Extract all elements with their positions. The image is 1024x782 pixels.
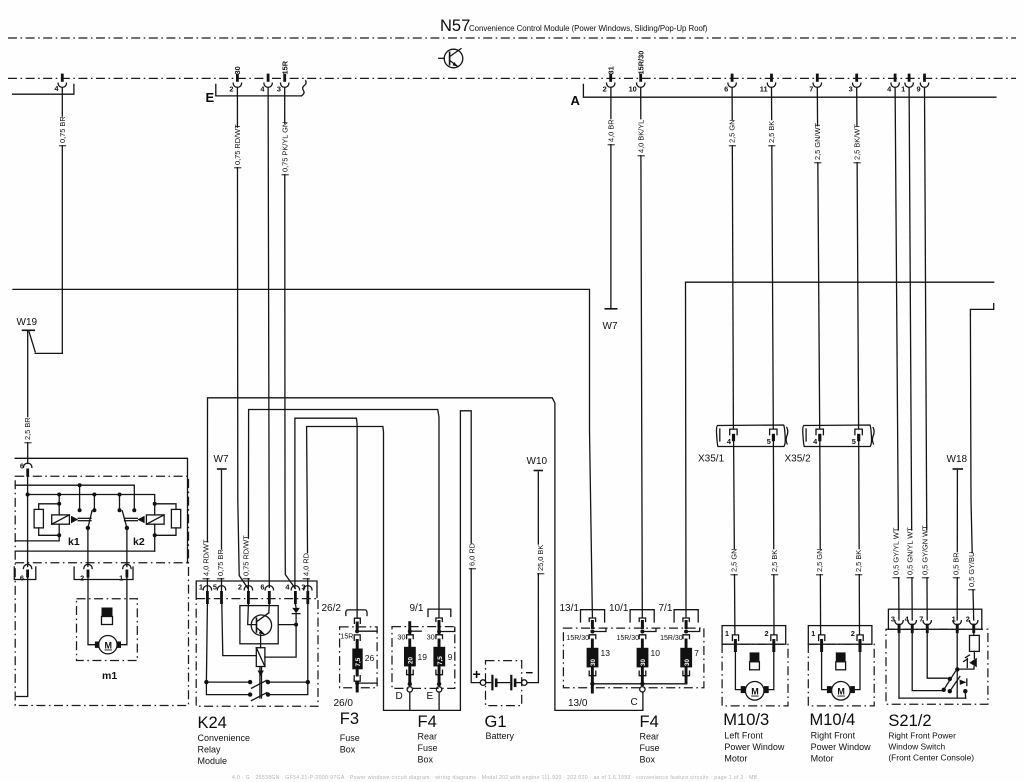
F3 labels xyxy=(334,698,360,755)
svg-text:0,5 GN/YL WT: 0,5 GN/YL WT xyxy=(905,527,914,575)
svg-text:0,75 RD/WT: 0,75 RD/WT xyxy=(242,535,251,576)
K24 pin 2 xyxy=(238,583,253,605)
svg-text:2: 2 xyxy=(851,629,855,638)
svg-text:13/1: 13/1 xyxy=(560,603,580,614)
svg-text:X35/2: X35/2 xyxy=(785,454,812,465)
motor M10/4 dash-dot box xyxy=(808,644,874,706)
svg-text:30: 30 xyxy=(640,658,647,666)
svg-text:30: 30 xyxy=(590,658,597,666)
door module chassis bus (top line and right drop) xyxy=(15,458,187,563)
svg-text:2: 2 xyxy=(765,629,769,638)
svg-text:F3: F3 xyxy=(340,710,359,728)
svg-text:Right Front: Right Front xyxy=(811,731,856,741)
svg-text:Window Switch: Window Switch xyxy=(888,742,945,752)
door module internal pins 2 and 1 (divider) xyxy=(74,564,133,582)
svg-text:2: 2 xyxy=(603,85,607,94)
svg-text:2,5 GN: 2,5 GN xyxy=(815,549,824,572)
svg-text:7,5: 7,5 xyxy=(355,657,362,666)
svg-text:9: 9 xyxy=(916,85,920,94)
wire divider pin 2 to m1 left brush xyxy=(88,578,95,645)
svg-text:15R/30: 15R/30 xyxy=(660,635,683,642)
svg-text:7,5: 7,5 xyxy=(437,656,444,665)
wire 0,5 GN/YL WT from A pin 1 to S21/2 pin 4 xyxy=(905,87,914,620)
svg-text:7: 7 xyxy=(694,648,699,658)
connector A pin 2 (terminal 31) xyxy=(603,66,616,93)
wire pin6 ground feed inside module xyxy=(27,477,29,567)
S21/2 rocker switch contacts xyxy=(899,633,968,698)
svg-text:15R: 15R xyxy=(341,634,354,641)
K24 pin 4 xyxy=(285,583,299,605)
svg-text:30: 30 xyxy=(684,658,691,666)
svg-text:5: 5 xyxy=(767,437,771,446)
svg-text:1: 1 xyxy=(725,629,729,638)
svg-text:A: A xyxy=(571,93,581,108)
S21/2 illumination LED xyxy=(957,655,976,669)
svg-text:2,5 GN/WT: 2,5 GN/WT xyxy=(813,123,822,160)
wire 4,0 BR from A pin 2 down to ground W7 xyxy=(606,87,615,307)
svg-text:X35/1: X35/1 xyxy=(698,454,725,465)
wire 2,5 GN/WT from A pin 7 to X35/2 pin 4 xyxy=(813,87,822,428)
svg-text:5: 5 xyxy=(852,437,856,446)
M10/3 labels xyxy=(723,711,785,764)
switch S21/2 connector box xyxy=(888,609,981,629)
K24 pin 3 xyxy=(301,583,312,605)
wire pin6 to module case (bottom left) xyxy=(17,578,28,697)
F4 left dash-dot box xyxy=(392,627,455,689)
svg-text:10: 10 xyxy=(629,85,637,94)
svg-text:(Front Center Console): (Front Center Console) xyxy=(888,753,974,763)
motor M10/4 armature xyxy=(822,650,860,700)
transistor symbol inside N57 xyxy=(439,49,463,68)
svg-text:1: 1 xyxy=(199,583,203,592)
N57 module boundary upper dash-dot line xyxy=(8,37,1016,39)
svg-text:30: 30 xyxy=(397,633,405,642)
svg-text:7/1: 7/1 xyxy=(659,603,673,614)
svg-text:0,5 GY/GN WT: 0,5 GY/GN WT xyxy=(921,525,930,575)
motor m1 xyxy=(95,636,121,654)
connector A pin 7 xyxy=(809,74,821,94)
S21/2 dash-dot box xyxy=(886,629,988,704)
svg-text:2,5 BR: 2,5 BR xyxy=(23,417,32,440)
svg-text:2,5 BK/WT: 2,5 BK/WT xyxy=(852,124,861,160)
svg-text:S21/2: S21/2 xyxy=(888,712,931,730)
wire 0,75 RD/WT from E pin 2 down to K24 pin 2 xyxy=(233,87,248,588)
svg-text:6: 6 xyxy=(20,462,24,471)
wire 15R branch: K24 pin 4 riser to fuse F3 (26/2) xyxy=(295,418,357,617)
svg-text:Rear: Rear xyxy=(418,732,438,742)
K24 relay coil xyxy=(222,604,298,667)
wire 0,75 BR from pin 4 down to W19 junction xyxy=(58,87,67,353)
svg-text:0,75 BR: 0,75 BR xyxy=(58,116,67,143)
svg-text:0,5 BR: 0,5 BR xyxy=(952,552,961,575)
fuse D (20A/19) xyxy=(397,621,427,710)
svg-text:15R/30: 15R/30 xyxy=(616,635,639,642)
S21/2 illumination resistor xyxy=(970,633,980,659)
wire 2,5 BK from A pin 11 to X35/1 pin 5 xyxy=(767,87,776,428)
svg-text:Convenience Control Module (Po: Convenience Control Module (Power Window… xyxy=(469,24,708,33)
svg-text:2,5 GN: 2,5 GN xyxy=(728,120,737,143)
svg-text:G1: G1 xyxy=(485,713,507,731)
K24 diode xyxy=(292,604,300,614)
motor M10/3 connector box xyxy=(722,626,786,652)
svg-text:Box: Box xyxy=(418,755,434,765)
M10/3 thermal block xyxy=(750,652,760,669)
svg-text:15R/30: 15R/30 xyxy=(637,51,646,75)
svg-text:Power Window: Power Window xyxy=(811,742,872,752)
wire 0,5 BR from W18 down to S21/2 pin 1 xyxy=(952,470,961,620)
svg-text:10: 10 xyxy=(651,648,661,658)
resistor (k1 parallel) xyxy=(15,504,61,541)
svg-text:0,75 RD/WT: 0,75 RD/WT xyxy=(233,124,242,165)
connector pin 4 (top left, N57) xyxy=(13,74,74,95)
fuse 13 bracket 13/1 xyxy=(560,603,605,629)
connector A pin 3 xyxy=(849,74,861,94)
wire 0,5 GY/BU drop to S21/2 pin 2 xyxy=(967,315,976,620)
svg-text:W19: W19 xyxy=(17,317,38,328)
wire 7/1 feed: fuse 7 up and across to S21/2 pin 2 drop xyxy=(686,282,994,617)
wire 0,5 GY/YL WT from A pin 4 to S21/2 pin 3 xyxy=(891,87,900,620)
svg-text:Power Window: Power Window xyxy=(724,742,785,752)
connector A pin 4 xyxy=(887,74,899,94)
relay k1 changeover contact xyxy=(78,485,97,566)
motor M10/3 dash-dot box xyxy=(722,644,788,706)
door module internal pin 6 (divider) xyxy=(14,564,36,582)
svg-text:30: 30 xyxy=(233,66,242,74)
K24 labels xyxy=(198,714,251,766)
F4 left labels xyxy=(396,691,438,765)
svg-text:M: M xyxy=(105,641,113,651)
svg-text:E: E xyxy=(206,90,215,105)
svg-text:5: 5 xyxy=(213,583,217,592)
K24 pin 1 xyxy=(199,583,212,605)
svg-text:4,0 RD/WT: 4,0 RD/WT xyxy=(201,539,210,576)
svg-text:Convenience: Convenience xyxy=(198,733,251,743)
relay section bus 2 (from pin 6) xyxy=(26,493,155,504)
svg-text:2,5 BK: 2,5 BK xyxy=(767,121,776,143)
svg-text:W7: W7 xyxy=(214,454,229,465)
svg-text:Fuse: Fuse xyxy=(640,743,660,753)
svg-text:26/0: 26/0 xyxy=(334,698,354,709)
svg-text:Rear: Rear xyxy=(640,732,660,742)
svg-text:M: M xyxy=(837,687,845,697)
svg-text:Right Front Power: Right Front Power xyxy=(888,731,956,741)
svg-text:6,0 RD: 6,0 RD xyxy=(468,543,477,566)
connector A pin 11 xyxy=(760,74,776,94)
svg-text:30: 30 xyxy=(427,633,435,642)
svg-text:4,0 BR: 4,0 BR xyxy=(606,119,615,142)
svg-text:1: 1 xyxy=(901,85,905,94)
wire 2,5 BK/WT from A pin 3 to X35/2 pin 5 xyxy=(852,87,861,428)
K24 driver transistor box xyxy=(240,604,278,644)
connector A pin 9 xyxy=(916,74,928,94)
wire 2,5 GN X35/2 pin4 to M10/4 pin 1 xyxy=(815,441,824,634)
svg-text:2,5 BK: 2,5 BK xyxy=(770,550,779,572)
M10/4 labels xyxy=(810,711,872,764)
relay k2 changeover contact xyxy=(118,495,137,567)
fuse 7 bracket 7/1 xyxy=(659,603,699,629)
svg-text:13: 13 xyxy=(601,648,611,658)
svg-text:0,75 BR: 0,75 BR xyxy=(216,549,225,576)
ground W7 (left) xyxy=(214,454,229,469)
svg-text:4,0 RD: 4,0 RD xyxy=(302,553,311,576)
svg-text:C: C xyxy=(631,697,638,708)
svg-text:20: 20 xyxy=(408,656,415,664)
svg-text:Motor: Motor xyxy=(724,754,747,764)
N57 module boundary lower dash-dot line xyxy=(8,77,1016,79)
S21/2 labels xyxy=(888,712,974,763)
svg-text:31: 31 xyxy=(607,66,616,74)
relay k1 coil xyxy=(52,495,91,549)
svg-text:0,5 GY/BU: 0,5 GY/BU xyxy=(967,552,976,587)
connector A pin 10 (terminal 15R/30) xyxy=(629,51,646,94)
svg-text:Box: Box xyxy=(340,745,356,755)
fuse 26 (7,5A) in F3 xyxy=(352,629,377,692)
svg-text:7: 7 xyxy=(809,85,813,94)
connector A bracket and label xyxy=(571,84,996,108)
wire from E pin 4 down to K24 pin 6 xyxy=(268,87,269,587)
N57 label xyxy=(440,17,708,35)
svg-text:26/2: 26/2 xyxy=(322,603,342,614)
svg-text:6: 6 xyxy=(260,583,264,592)
fuse box F3 dash-dot box xyxy=(340,627,378,688)
motor m1 enclosure xyxy=(77,599,138,682)
K24 module dash-dot box xyxy=(196,599,341,707)
wire 0,5 GY/GN WT from A pin 9 to S21/2 pin 7 xyxy=(921,87,930,620)
svg-text:2,5 BK: 2,5 BK xyxy=(854,550,863,572)
svg-text:9/1: 9/1 xyxy=(410,603,424,614)
fuse 13 (30A) xyxy=(566,629,610,694)
wire 0,75 PK/YL GN from E pin 3 down to K24 pin 4 xyxy=(280,87,295,588)
svg-text:3: 3 xyxy=(849,85,853,94)
svg-text:6: 6 xyxy=(724,85,728,94)
K24 pin 6 xyxy=(260,583,273,605)
svg-text:2: 2 xyxy=(229,85,233,94)
svg-text:0,75 PK/YL GN: 0,75 PK/YL GN xyxy=(280,122,289,172)
svg-text:25,0 BK: 25,0 BK xyxy=(536,545,545,571)
fuse 10 (30A) xyxy=(616,629,660,693)
svg-text:m1: m1 xyxy=(102,670,117,682)
F4 rear fuse box (right) dash-dot box xyxy=(563,628,704,688)
svg-text:1: 1 xyxy=(811,629,815,638)
wire 25,0 BK from W10 down to battery minus xyxy=(527,472,545,683)
svg-text:M10/3: M10/3 xyxy=(723,711,769,729)
svg-text:Fuse: Fuse xyxy=(340,733,360,743)
ground node W19 xyxy=(17,317,63,353)
svg-text:W18: W18 xyxy=(947,454,968,465)
svg-text:3: 3 xyxy=(277,85,281,94)
svg-text:−: − xyxy=(526,665,534,680)
svg-text:M10/4: M10/4 xyxy=(810,711,856,729)
svg-text:0,5 GY/YL WT: 0,5 GY/YL WT xyxy=(891,527,900,575)
wire 2,5 BR from W19 down to door module pin 6 xyxy=(23,332,32,464)
connector X35/1 xyxy=(698,425,788,465)
m1 thermal block symbol xyxy=(102,608,113,625)
connector E bracket and label xyxy=(206,81,307,105)
svg-text:+: + xyxy=(473,666,481,682)
wire 2,5 GN from A pin 6 to X35/1 pin 4 xyxy=(728,87,737,428)
wire K24 pin 2 loop to fuse E (9/1) xyxy=(242,410,440,618)
svg-text:Box: Box xyxy=(640,755,656,765)
connector E pin 4 xyxy=(260,74,272,94)
motor M10/3 armature xyxy=(735,650,773,700)
svg-text:15R/30: 15R/30 xyxy=(566,635,589,642)
footer caption (blurred fine print) xyxy=(232,775,758,781)
wire divider pin 1 to m1 right brush xyxy=(121,578,127,645)
svg-text:3: 3 xyxy=(301,583,305,592)
fuse E (7,5A/9) xyxy=(427,626,455,710)
svg-text:W10: W10 xyxy=(527,456,548,467)
svg-text:2: 2 xyxy=(238,583,242,592)
connector X35/2 xyxy=(785,425,875,465)
wire 2,5 BK X35/2 pin5 to M10/4 pin 2 xyxy=(854,441,863,634)
svg-text:11: 11 xyxy=(760,85,768,94)
wire 4,0 BK/YL from A pin 10 down to fuse 10/1 xyxy=(636,87,645,617)
svg-text:Motor: Motor xyxy=(811,754,834,764)
svg-text:Module: Module xyxy=(198,756,228,766)
connector A pin 6 xyxy=(724,74,736,94)
door control module dash-dot enclosure xyxy=(15,476,188,705)
svg-text:k1: k1 xyxy=(68,536,80,548)
wire 4,0 RD: K24 pin 3 loop to F4 rear fuse box (left leg) xyxy=(302,411,481,711)
svg-text:F4: F4 xyxy=(418,713,437,731)
connector E pin 3 (terminal 15R) xyxy=(277,60,290,93)
wire K24 pin 1 loop to fuse box F4 output C (4,0 RD/WT net) xyxy=(201,398,643,711)
relay section bus 1 xyxy=(15,483,134,509)
svg-text:M: M xyxy=(751,687,759,697)
svg-text:19: 19 xyxy=(418,652,428,662)
svg-text:E: E xyxy=(427,691,434,702)
K24 changeover contacts xyxy=(204,604,310,701)
fuse 7 (30A) xyxy=(660,629,700,685)
connector A pin 1 xyxy=(901,74,913,94)
svg-text:4,0 · G · 25538GN · GF54.21-P-: 4,0 · G · 25538GN · GF54.21-P-2000-97GA … xyxy=(232,775,758,781)
svg-text:D: D xyxy=(396,691,403,702)
door module pin 6 (top entry) xyxy=(20,462,32,477)
wire 2,5 GN X35/1 pin4 to M10/3 pin 1 xyxy=(729,441,738,634)
ground W7 (right) xyxy=(603,309,618,332)
svg-text:10/1: 10/1 xyxy=(609,603,629,614)
ground W10 xyxy=(527,456,548,471)
ground W18 xyxy=(947,454,968,469)
K24 pin 5 xyxy=(213,583,226,605)
fuse box F3: input bracket 26/2 xyxy=(346,610,367,630)
svg-text:1: 1 xyxy=(119,574,123,583)
svg-text:13/0: 13/0 xyxy=(568,698,588,709)
M10/4 thermal block xyxy=(836,652,846,669)
wire 13/1 feed: horizontal from left margin to fuse 13 xyxy=(13,289,592,617)
svg-text:W7: W7 xyxy=(603,321,618,332)
relay k2 coil xyxy=(125,502,165,551)
connector E pin 2 (terminal 30) xyxy=(229,66,242,93)
svg-text:Fuse: Fuse xyxy=(418,743,438,753)
svg-text:K24: K24 xyxy=(198,714,227,732)
K24 contact actuator xyxy=(258,668,264,699)
svg-text:15R: 15R xyxy=(281,60,290,74)
fuse 10 bracket 10/1 xyxy=(609,603,654,629)
svg-text:k2: k2 xyxy=(133,536,145,548)
battery G1 xyxy=(473,661,534,741)
F4 right labels xyxy=(568,697,660,765)
wire 0,75 BR from W7 down to K24 pin 5 xyxy=(216,470,225,591)
svg-text:9: 9 xyxy=(448,652,453,662)
svg-text:Left Front: Left Front xyxy=(724,731,763,741)
svg-text:Battery: Battery xyxy=(486,731,515,741)
F4 right output bus to C xyxy=(592,683,686,685)
motor M10/4 connector box xyxy=(808,626,872,652)
svg-text:4,0 BK/YL: 4,0 BK/YL xyxy=(636,120,645,153)
K24 pin header box xyxy=(196,581,317,598)
svg-text:F4: F4 xyxy=(640,713,659,731)
wire 2,5 BK X35/1 pin5 to M10/3 pin 2 xyxy=(770,441,779,634)
svg-text:2: 2 xyxy=(80,574,84,583)
resistor (k2 parallel) xyxy=(15,504,181,551)
S21/2 pins xyxy=(895,621,978,634)
svg-text:N57: N57 xyxy=(440,17,470,35)
F4 rear fuse box (left) bracket 9/1 xyxy=(410,603,451,629)
svg-text:6: 6 xyxy=(20,574,24,583)
svg-text:26: 26 xyxy=(365,653,375,663)
svg-text:2,5 GN: 2,5 GN xyxy=(729,549,738,572)
svg-text:Relay: Relay xyxy=(198,745,222,755)
wire 6,0 RD label (battery + feed) xyxy=(468,543,477,569)
